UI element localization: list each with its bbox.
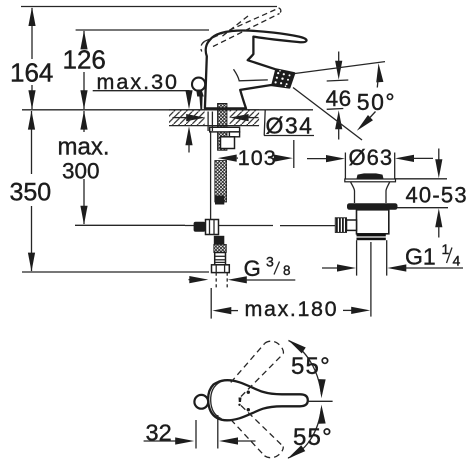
svg-text:46: 46 (326, 86, 352, 111)
pop-up rod below deck (208, 112, 212, 222)
hose restart cap dark (214, 236, 225, 245)
svg-text:164: 164 (10, 58, 53, 88)
waste rod knurled adjuster (335, 218, 346, 233)
dimension 40-53 (395, 149, 468, 238)
top view faucet body and lever (208, 380, 308, 420)
svg-text:50°: 50° (357, 89, 396, 115)
waste plug dome (357, 173, 384, 178)
aerator knurled band (271, 69, 294, 87)
lever centerline tick (307, 400, 333, 402)
svg-text:4: 4 (453, 253, 461, 269)
svg-text:max.: max. (58, 134, 110, 161)
pop-up knob side view (192, 78, 205, 110)
hose G3/8 fitting (215, 253, 226, 265)
waste upper body flare (351, 182, 390, 203)
svg-text:40-53: 40-53 (406, 182, 468, 207)
dimension Ø63 (307, 145, 433, 180)
pop-up waste assembly (335, 173, 397, 316)
dimension 164 (10, 7, 53, 109)
svg-text:1: 1 (442, 241, 450, 257)
faucet threaded shank through deck (218, 104, 227, 151)
svg-text:3: 3 (266, 254, 274, 270)
label G1 1/4 (322, 241, 463, 272)
waste top flange (345, 179, 396, 182)
hose hex nut (212, 265, 230, 273)
dimension max.300 (58, 111, 110, 225)
svg-text:55°: 55° (291, 353, 331, 380)
mounting nut below deck (221, 137, 235, 149)
svg-text:8: 8 (283, 263, 291, 278)
pop-up actuating rod horizontal (185, 225, 335, 227)
lever rotated up 55 dashed (231, 341, 284, 396)
waste body (357, 210, 389, 234)
dimension 350 (10, 111, 52, 272)
extension line top (lever raised tip) (21, 6, 277, 8)
label G 3/8 (189, 254, 296, 284)
dimension 103 (218, 140, 294, 170)
spout interior lines (234, 69, 268, 81)
svg-text:300: 300 (62, 159, 100, 184)
top view pop-up knob (194, 395, 208, 409)
svg-text:103: 103 (238, 146, 277, 170)
flexible supply hose braided upper section (215, 161, 227, 203)
G3/8 thread dashed outline (216, 273, 227, 290)
mounting washer below deck (210, 127, 240, 136)
label Ø34 (264, 110, 314, 139)
svg-text:350: 350 (10, 178, 52, 206)
deck cross-section with hatching (169, 110, 259, 126)
svg-text:Ø63: Ø63 (349, 145, 394, 170)
waste lower flange dark (347, 203, 398, 210)
svg-text:55°: 55° (293, 424, 333, 451)
waste body bands (357, 234, 386, 237)
angle 50 degrees: spout axis extension lines (293, 62, 396, 140)
dimension max.180 (211, 288, 370, 321)
extension line supply end (350) (22, 271, 209, 273)
waste tailpiece G1 1/4 (356, 240, 358, 275)
svg-text:max.180: max.180 (245, 297, 339, 321)
dimension 32 (top view) (144, 415, 256, 449)
angle arc lower 55 (285, 404, 332, 461)
dimension max.30 (93, 70, 193, 153)
flexible hose braided lower section (214, 244, 227, 252)
dimension Ø34 arrows on deck hole (173, 114, 259, 121)
deck top surface line (22, 109, 313, 111)
svg-text:Ø34: Ø34 (266, 113, 314, 139)
faucet body and spout silhouette (205, 30, 307, 108)
angle arc upper 55 (286, 337, 331, 399)
waste pop-up rod vertical (370, 242, 372, 317)
dimension 46 (spout end) (326, 52, 352, 140)
extension line hose end (max300) (75, 224, 185, 226)
rod T-junction clamp (194, 220, 219, 235)
extension line lever rest top (76, 29, 209, 31)
lever raised position dashed (201, 8, 281, 52)
dimension 126 (63, 30, 106, 109)
hose end cap dark (215, 196, 224, 205)
svg-text:G1: G1 (405, 244, 436, 270)
lever rotated down 55 dashed (231, 406, 283, 458)
